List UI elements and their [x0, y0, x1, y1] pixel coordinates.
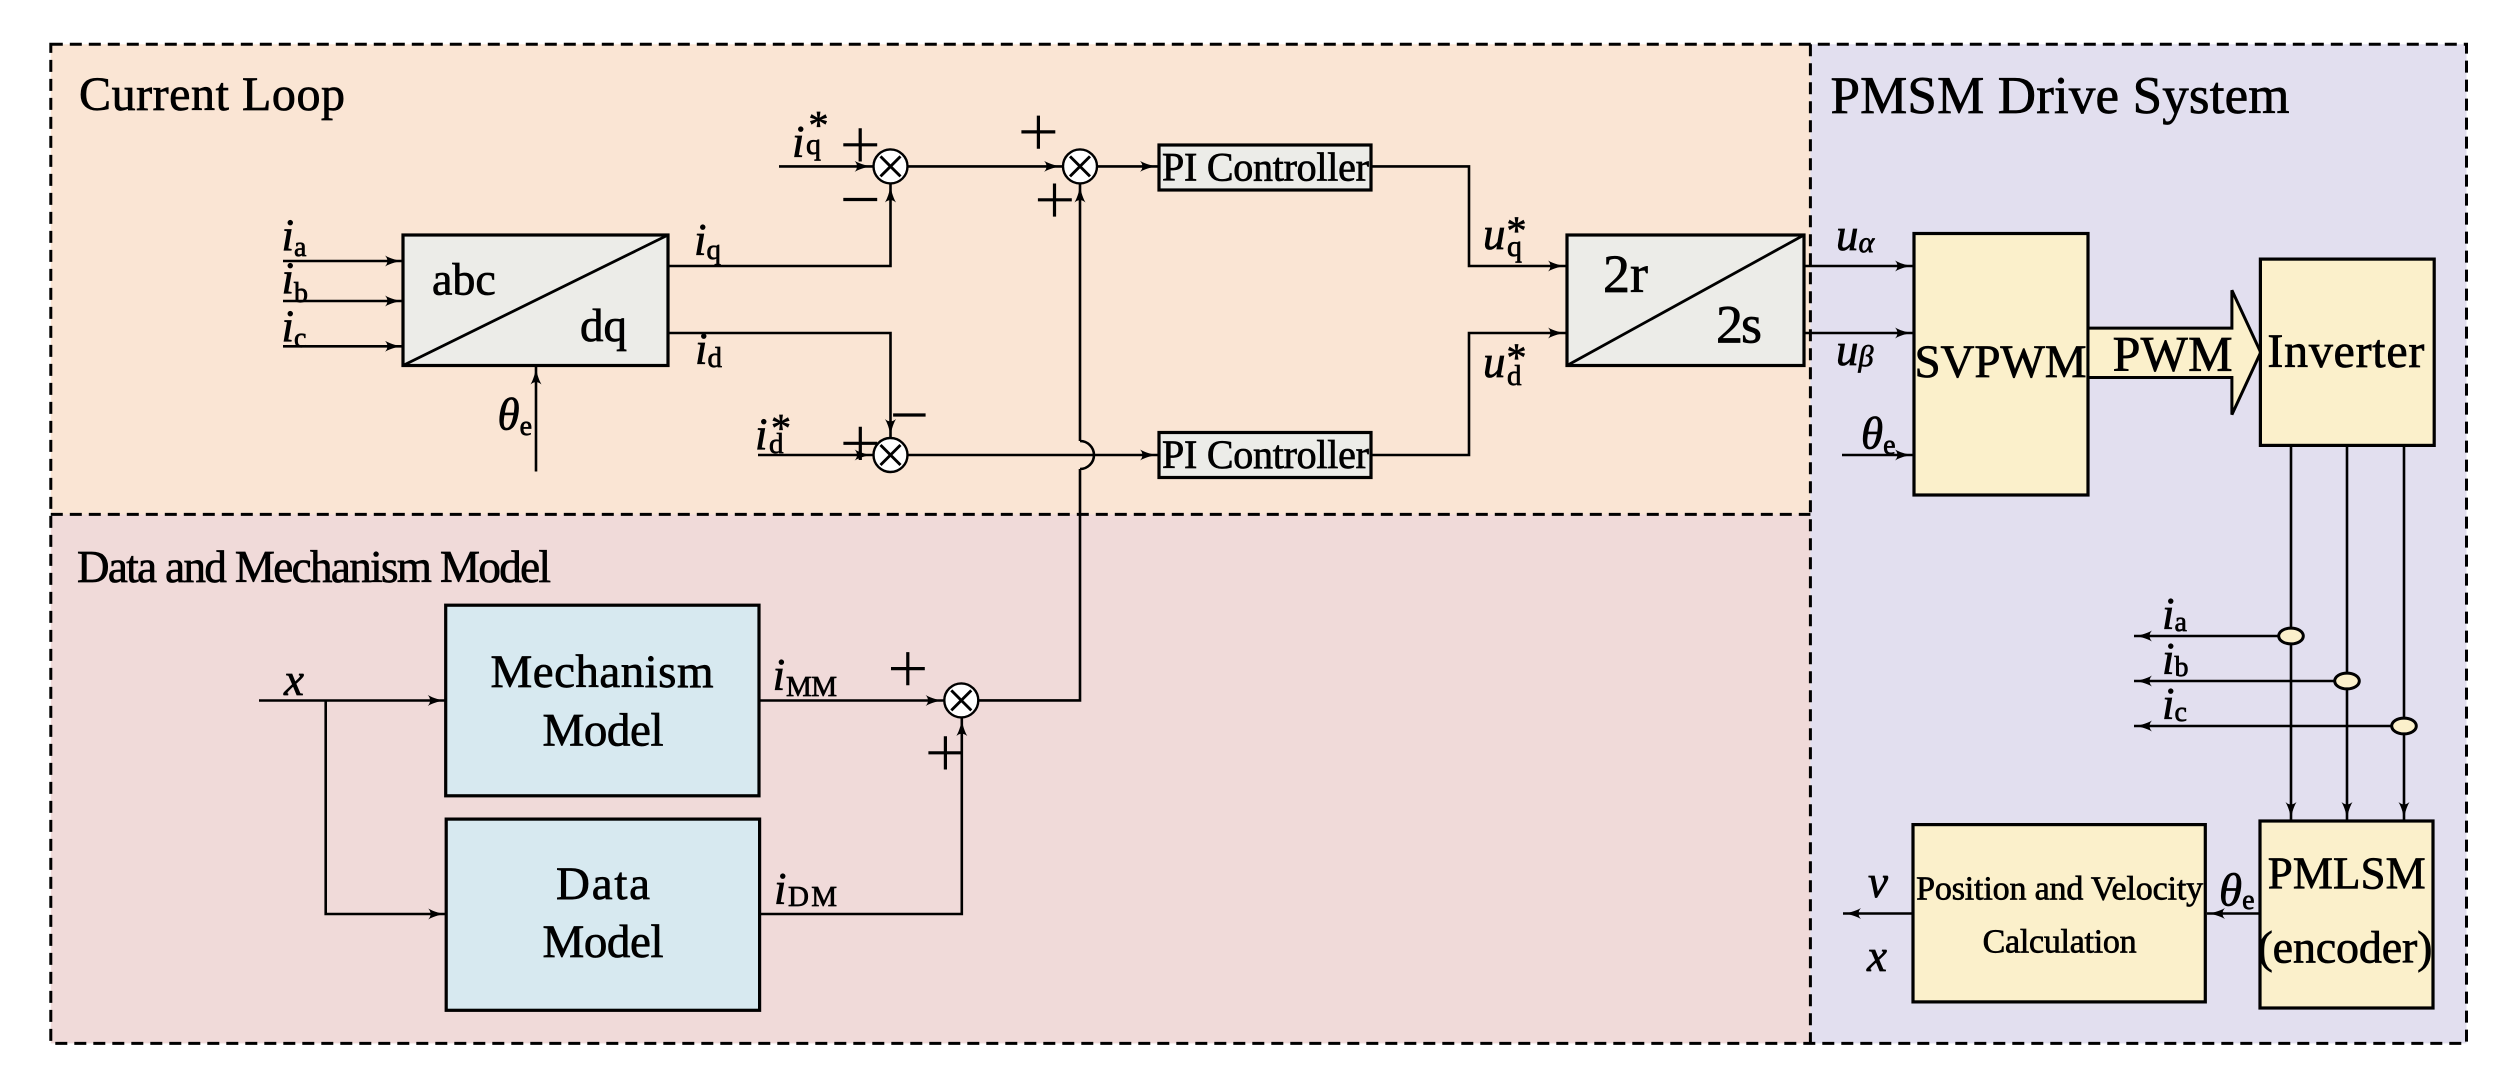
wire theta_e to SVPWM — [1842, 454, 1913, 457]
wire ia input — [283, 260, 403, 263]
svg-text:i: i — [792, 117, 805, 167]
svg-text:2s: 2s — [1716, 295, 1762, 355]
svg-text:i: i — [773, 650, 786, 700]
svg-text:x: x — [283, 655, 304, 705]
wire inverter leg b — [2346, 445, 2349, 820]
plus sign at summing junction 3 — [843, 427, 877, 460]
summing junction 1 — [874, 149, 908, 183]
region: Data and Mechanism Model background — [51, 514, 1811, 1043]
wire theta_e PMLSM to PVC — [2207, 912, 2260, 915]
wire u_beta to SVPWM — [1804, 332, 1913, 335]
svg-text:Mechanism: Mechanism — [491, 646, 714, 698]
svg-text:MM: MM — [786, 671, 837, 703]
dashed divider vertical — [1809, 44, 1812, 1043]
summing junction 3 — [874, 438, 908, 472]
dashed divider horizontal — [51, 513, 1811, 516]
wire junction3 to PI controller 2 — [908, 454, 1159, 457]
svg-text:Position and Velocity: Position and Velocity — [1916, 871, 2203, 908]
summing junction 2 — [1063, 149, 1097, 183]
wire id feedback — [668, 333, 891, 437]
svg-text:PWM: PWM — [2113, 326, 2233, 382]
wire PI2 output to 2r2s — [1371, 333, 1566, 455]
wire PI1 output to 2r2s — [1371, 166, 1566, 266]
block Position and Velocity Calculation — [1913, 825, 2205, 1002]
block 2r/2s transform — [1567, 235, 1804, 366]
sensor ellipse a — [2279, 628, 2304, 644]
wire current sense ib — [2134, 680, 2347, 683]
wire x input — [259, 699, 446, 702]
wire u_alpha to SVPWM — [1804, 265, 1913, 268]
svg-text:dq: dq — [580, 300, 627, 352]
wire junction4 up to junction2 with hop — [978, 185, 1094, 701]
svg-text:Model: Model — [543, 704, 664, 756]
PWM block arrow — [2088, 290, 2261, 414]
svg-text:u: u — [1483, 209, 1506, 259]
svg-text:PI Controller: PI Controller — [1162, 432, 1369, 477]
svg-text:u: u — [1483, 337, 1506, 387]
minus sign at summing junction 3 — [893, 413, 926, 416]
block SVPWM — [1914, 234, 2088, 496]
wire current sense ic — [2134, 725, 2404, 728]
block PI Controller 2 — [1159, 432, 1371, 478]
svg-text:Inverter: Inverter — [2267, 325, 2424, 378]
svg-text:PMSM Drive System: PMSM Drive System — [1831, 67, 2290, 125]
block abc/dq transform — [403, 235, 668, 366]
plus sign at summing junction 1 — [843, 128, 877, 161]
summing junction 4 — [944, 683, 978, 717]
svg-text:abc: abc — [432, 254, 496, 305]
sensor ellipse b — [2335, 673, 2360, 689]
wire x branch to Data Model — [326, 701, 447, 915]
svg-text:i: i — [774, 864, 787, 914]
block Mechanism Model — [446, 605, 759, 796]
wire inverter leg a — [2290, 445, 2293, 820]
svg-text:i: i — [755, 410, 768, 460]
svg-text:Data: Data — [556, 858, 650, 910]
svg-text:*: * — [771, 406, 791, 451]
plus sign at junction 4 left — [891, 652, 925, 685]
wire ic input — [283, 345, 403, 348]
svg-text:DM: DM — [788, 881, 837, 913]
block PI Controller 1 — [1159, 145, 1371, 191]
svg-text:PI Controller: PI Controller — [1162, 145, 1369, 190]
region: PMSM Drive System background — [1810, 44, 2466, 1043]
svg-text:*: * — [1507, 335, 1527, 380]
wire iq* input — [779, 165, 873, 168]
wire iq feedback — [668, 185, 891, 267]
plus sign at junction 4 bottom — [928, 736, 962, 769]
svg-text:Data and Mechanism Model: Data and Mechanism Model — [77, 542, 551, 592]
block Inverter — [2260, 259, 2434, 445]
plus sign lower at junction 2 — [1038, 184, 1072, 217]
region: Current Loop background — [51, 44, 1811, 514]
wire v x output — [1843, 912, 1913, 915]
block PMLSM (encoder) — [2258, 821, 2434, 1008]
wire iMM to junction4 — [759, 699, 944, 702]
svg-text:v: v — [1868, 857, 1888, 907]
sensor ellipse c — [2392, 718, 2417, 734]
wire id* input — [758, 454, 873, 457]
svg-text:Calculation: Calculation — [1983, 923, 2137, 960]
wire inverter leg c — [2403, 445, 2406, 820]
plus sign upper at junction 2 — [1021, 116, 1055, 149]
svg-text:SVPWM: SVPWM — [1915, 336, 2087, 388]
block Data Model — [446, 819, 759, 1010]
wire junction1 to junction2 — [908, 165, 1063, 168]
wire theta_e into abc/dq — [535, 367, 538, 472]
wire junction2 to PI controller 1 — [1097, 165, 1158, 168]
svg-text:PMLSM: PMLSM — [2268, 849, 2426, 899]
wire current sense ia — [2134, 635, 2291, 638]
svg-text:Current Loop: Current Loop — [79, 68, 345, 121]
wire ib input — [283, 300, 403, 303]
svg-text:*: * — [809, 103, 829, 148]
svg-text:*: * — [1507, 208, 1527, 253]
wire iDM to junction4 — [760, 718, 962, 914]
svg-text:(encoder): (encoder) — [2258, 922, 2433, 973]
svg-text:Model: Model — [543, 916, 664, 968]
svg-text:x: x — [1866, 931, 1887, 981]
minus sign at summing junction 1 — [843, 198, 877, 201]
svg-text:2r: 2r — [1603, 244, 1648, 304]
